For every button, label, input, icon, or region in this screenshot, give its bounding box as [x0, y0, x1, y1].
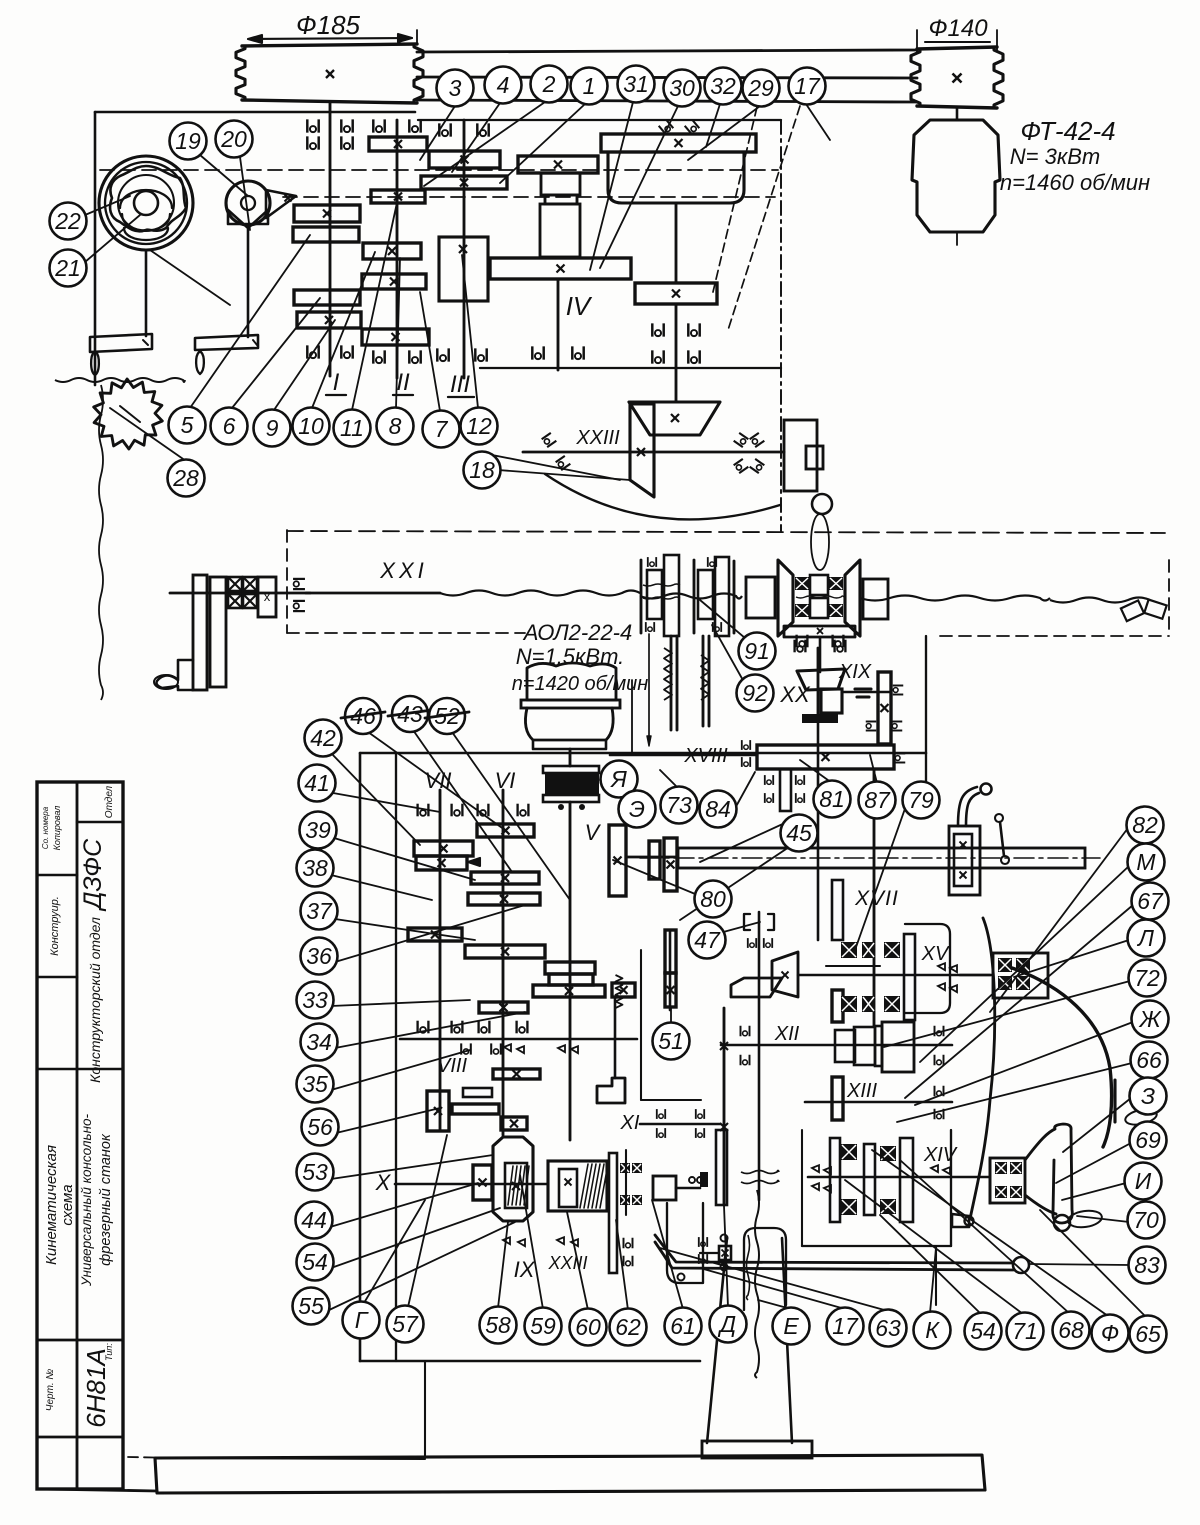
callout 70: [1128, 1202, 1165, 1239]
gears VI: [477, 824, 534, 837]
axis dashed upper: [100, 169, 778, 171]
callout 19: [170, 123, 207, 160]
svg-text:19: 19: [175, 128, 201, 154]
frame feed gearbox: [359, 753, 362, 1361]
valve assembly: [719, 1246, 731, 1260]
svg-text:57: 57: [392, 1311, 419, 1337]
leaders crossed circles: [368, 732, 505, 830]
bevel pair XXIII top: [629, 402, 720, 435]
svg-text:8: 8: [389, 413, 402, 439]
gear II b: [371, 190, 425, 203]
bearing glyph XVIII left: [742, 740, 750, 750]
svg-text:30: 30: [669, 75, 695, 101]
bearings VI: [478, 804, 489, 817]
shaft XIV: [808, 1176, 990, 1179]
callout З: [1130, 1078, 1167, 1115]
rack wavy: [55, 378, 185, 382]
svg-text:Ф: Ф: [1101, 1320, 1119, 1346]
svg-text:XII: XII: [774, 1023, 800, 1045]
frame inner right: [640, 950, 642, 1100]
gear II e: [362, 329, 429, 345]
shaft crank: [170, 592, 310, 595]
shaft XVI bar: [678, 848, 1085, 868]
svg-text:5: 5: [181, 412, 194, 438]
svg-text:82: 82: [1132, 812, 1158, 838]
machine column: [707, 1238, 727, 1443]
shaft V vertical: [569, 802, 572, 1140]
callout Я: [601, 761, 638, 798]
svg-text:29: 29: [747, 75, 774, 101]
svg-text:20: 20: [220, 126, 247, 152]
callout 61: [665, 1308, 702, 1345]
svg-text:65: 65: [1135, 1321, 1161, 1347]
lever on XVI: [958, 787, 977, 826]
shaft XIX horizontal: [843, 691, 889, 694]
svg-text:36: 36: [306, 943, 332, 969]
svg-text:70: 70: [1133, 1207, 1159, 1233]
callout 37: [301, 893, 338, 930]
bearings shaft IV: [532, 346, 543, 359]
svg-text:Отдел: Отдел: [104, 785, 115, 818]
svg-text:45: 45: [786, 820, 812, 846]
leader lines top circles: [420, 106, 455, 160]
handle block XVI right: [949, 826, 980, 895]
svg-text:6: 6: [223, 413, 236, 439]
callout 69: [1130, 1122, 1167, 1159]
spring coupling B: [693, 560, 696, 633]
svg-text:11: 11: [340, 415, 364, 441]
shaft XIII: [805, 1101, 952, 1104]
shaft XXII: [675, 203, 678, 283]
svg-text:42: 42: [310, 725, 336, 751]
shaft VII: [439, 790, 442, 1131]
callout 6: [211, 408, 248, 445]
callout 2: [531, 66, 568, 103]
wavy break XIV: [741, 1171, 779, 1174]
gear block I lower: [294, 290, 360, 305]
callout 87: [859, 782, 896, 819]
ball link: [812, 494, 832, 514]
svg-text:38: 38: [302, 855, 328, 881]
bevel left XV: [772, 952, 798, 997]
svg-text:92: 92: [742, 680, 768, 706]
callout 54: [297, 1244, 334, 1281]
callout 91: [739, 633, 776, 670]
svg-text:39: 39: [305, 817, 331, 843]
rods down with springs: [670, 636, 673, 730]
callout 34: [301, 1024, 338, 1061]
svg-text:47: 47: [694, 927, 721, 953]
leaders top area misc: [482, 453, 620, 480]
svg-text:1: 1: [583, 73, 596, 99]
XVIII lower: [780, 769, 791, 811]
callout 36: [301, 938, 338, 975]
callout 17: [789, 68, 826, 105]
svg-text:ФТ-42-4: ФТ-42-4: [1020, 116, 1115, 146]
svg-text:58: 58: [485, 1312, 511, 1338]
gear block I upper: [294, 205, 360, 222]
callout 62: [610, 1309, 647, 1346]
svg-text:Конструир.: Конструир.: [49, 896, 61, 956]
svg-text:ДЗФС: ДЗФС: [79, 838, 107, 912]
svg-text:71: 71: [1012, 1318, 1038, 1344]
svg-text:9: 9: [266, 415, 279, 441]
block III: [439, 237, 488, 301]
shaft XVIII: [610, 754, 757, 757]
svg-text:I: I: [333, 369, 340, 396]
screw XXI wavy: [306, 592, 440, 595]
block right of differential: [863, 579, 888, 619]
svg-text:Ф140: Ф140: [928, 15, 988, 42]
svg-text:Копировал: Копировал: [52, 806, 62, 851]
svg-text:28: 28: [172, 465, 199, 491]
shaft X vertical: [723, 1008, 726, 1205]
callout 12: [461, 408, 498, 445]
callout 81: [814, 781, 851, 818]
callout 72: [1129, 960, 1166, 997]
svg-text:Универсальный консольно-: Универсальный консольно-: [79, 1113, 94, 1287]
svg-text:XI: XI: [620, 1112, 640, 1134]
svg-text:XV: XV: [921, 943, 950, 965]
frame upper gearbox: [95, 111, 415, 114]
shaft V gears: [545, 962, 595, 974]
svg-text:XXIII: XXIII: [575, 427, 620, 449]
callout Е: [773, 1308, 810, 1345]
callout 43: [392, 696, 428, 732]
callout 32: [705, 68, 742, 105]
gears VII: [414, 841, 473, 856]
callout 82: [1127, 807, 1164, 844]
callout 17: [827, 1308, 864, 1345]
svg-text:N=1,5кВт.: N=1,5кВт.: [516, 644, 625, 669]
callout 39: [300, 812, 337, 849]
callout 58: [480, 1307, 517, 1344]
svg-text:22: 22: [54, 208, 81, 234]
bearings XXIII right: [734, 433, 749, 447]
svg-text:55: 55: [298, 1293, 324, 1319]
arc bottom upper unit: [545, 474, 780, 519]
svg-text:XX: XX: [779, 682, 811, 707]
svg-text:84: 84: [705, 796, 731, 822]
callout 41: [299, 765, 336, 802]
callout 80: [695, 881, 732, 918]
block on shaft XXIII: [653, 1176, 676, 1200]
dashed leader 29: [713, 107, 757, 292]
lever arm 2: [247, 226, 250, 337]
shaft VI: [502, 790, 505, 1135]
frame box XIV: [801, 1130, 803, 1246]
leaders bottom row: [364, 1200, 425, 1303]
callout 51: [653, 1023, 690, 1060]
svg-text:Я: Я: [609, 766, 627, 792]
shaft X horizontal: [395, 1183, 548, 1186]
lever rod right: [970, 918, 995, 1219]
callout 22: [50, 203, 87, 240]
nuts on screw: [1121, 600, 1144, 621]
svg-text:21: 21: [54, 255, 81, 281]
base slab: [155, 1455, 985, 1493]
spring coupling A: [640, 560, 643, 633]
coupling black: [543, 766, 599, 773]
shaft at 759: [758, 912, 761, 1200]
motor АОЛ2-22-4: [527, 663, 616, 700]
leaders right column: [990, 828, 1128, 1012]
star gear: [94, 379, 163, 449]
callout К: [914, 1312, 951, 1349]
svg-text:XIX: XIX: [838, 661, 872, 683]
gear II a: [369, 137, 427, 151]
bearing squares crank: [228, 577, 242, 591]
gear II d: [362, 274, 426, 289]
bearings XIX right: [893, 686, 904, 695]
svg-text:56: 56: [307, 1114, 333, 1140]
svg-text:Кинематическая: Кинематическая: [43, 1145, 60, 1265]
belt between pulleys: [417, 50, 917, 52]
block IV step: [541, 173, 580, 195]
svg-text:Ф185: Ф185: [296, 10, 361, 40]
svg-text:51: 51: [658, 1028, 684, 1054]
svg-text:Е: Е: [783, 1313, 799, 1339]
callout 63: [870, 1310, 907, 1347]
bearing block XIV right: [990, 1158, 1025, 1203]
callout 9: [254, 410, 291, 447]
shaft motor 2: [569, 749, 572, 766]
svg-text:IV: IV: [566, 291, 593, 321]
callout 56: [302, 1109, 339, 1146]
callout 47: [689, 922, 726, 959]
callout 60: [570, 1309, 607, 1346]
svg-text:62: 62: [615, 1314, 641, 1340]
gear XVIII bar: [757, 745, 894, 769]
pulley small 19/20: [226, 181, 270, 225]
bearings shaft II top: [373, 119, 384, 132]
bearings XIX top: [797, 635, 808, 648]
callout 54: [965, 1313, 1002, 1350]
gear XIX vertical: [878, 672, 891, 744]
svg-text:Э: Э: [629, 796, 645, 822]
svg-text:Ж: Ж: [1138, 1006, 1162, 1032]
leader lines left top: [200, 155, 248, 196]
clutch XV: [832, 880, 843, 940]
svg-text:VI: VI: [495, 768, 516, 793]
svg-text:66: 66: [1136, 1047, 1162, 1073]
svg-text:69: 69: [1135, 1127, 1161, 1153]
bearings shaft I bottom: [307, 345, 318, 358]
gear 51 shaft: [669, 930, 672, 1010]
callout 31: [618, 66, 655, 103]
leaders middle: [700, 600, 745, 638]
coupling block crank: [258, 577, 276, 617]
gear II c: [363, 243, 421, 259]
electric motor ФТ-42-4: [912, 120, 1000, 232]
svg-text:10: 10: [298, 413, 324, 439]
callout 3: [437, 70, 474, 107]
callout 52: [429, 698, 465, 734]
svg-text:41: 41: [304, 770, 330, 796]
bracket rounded: [667, 1203, 703, 1283]
svg-text:М: М: [1136, 849, 1156, 875]
svg-text:x: x: [264, 589, 271, 604]
svg-text:17: 17: [832, 1313, 859, 1339]
console outline: [744, 1228, 786, 1310]
svg-text:59: 59: [530, 1313, 556, 1339]
callout 20: [216, 121, 253, 158]
pulley Ф185: [242, 44, 417, 46]
leaders mid row: [190, 235, 310, 408]
svg-text:фрезерный станок: фрезерный станок: [98, 1133, 114, 1266]
gear XXII mid: [635, 283, 717, 304]
callout 65: [1130, 1316, 1167, 1353]
gear left IX: [473, 1165, 492, 1200]
long lever rod bottom: [655, 1235, 1013, 1263]
svg-text:18: 18: [469, 457, 495, 483]
svg-text:54: 54: [302, 1249, 328, 1275]
svg-text:Л: Л: [1136, 925, 1154, 951]
gear bar V: [609, 825, 626, 896]
svg-text:Конструкторский отдел: Конструкторский отдел: [87, 917, 103, 1083]
svg-text:35: 35: [302, 1071, 328, 1097]
shaft XII: [721, 1044, 952, 1047]
callout Г: [343, 1302, 380, 1339]
tall bar right of XXIII: [609, 1153, 617, 1273]
cam drum 21/22: [99, 156, 193, 250]
cone horn: [1025, 1124, 1072, 1223]
callout 28: [168, 460, 205, 497]
callout Д: [710, 1306, 747, 1343]
svg-text:XXI: XXI: [379, 558, 427, 583]
gear III a: [429, 151, 500, 168]
svg-text:34: 34: [306, 1029, 332, 1055]
gear IV top: [518, 156, 598, 173]
svg-text:80: 80: [700, 886, 726, 912]
callout 66: [1131, 1042, 1168, 1079]
cup spindle XXII: [608, 152, 744, 203]
block right of XXIII: [784, 420, 817, 491]
svg-text:n=1460 об/мин: n=1460 об/мин: [1000, 170, 1150, 195]
callout Э: [619, 791, 656, 828]
callout 4: [485, 67, 522, 104]
callout 83: [1129, 1247, 1166, 1284]
shaft VIII horizontal: [400, 1038, 637, 1041]
gears XVI left: [649, 841, 660, 879]
clutch IX: [493, 1137, 533, 1221]
gear IV long bar: [490, 258, 631, 279]
svg-text:АОЛ2-22-4: АОЛ2-22-4: [522, 620, 633, 645]
svg-text:V: V: [585, 820, 602, 845]
bracket box XV: [905, 924, 950, 1013]
dashed box XXI: [286, 530, 288, 633]
svg-text:З: З: [1141, 1083, 1155, 1109]
callout 53: [297, 1154, 334, 1191]
svg-text:91: 91: [744, 638, 770, 664]
title block frame: [37, 782, 123, 1489]
bearings XXII: [652, 323, 663, 336]
bearings shaft II bottom: [373, 350, 384, 363]
bearings shaft III bottom: [437, 348, 448, 361]
callout 45: [781, 815, 818, 852]
bevel XIX: [797, 669, 845, 690]
callout Ф: [1092, 1315, 1129, 1352]
plain block: [746, 577, 775, 618]
shaft I: [329, 103, 332, 376]
bearing top XXII: [659, 120, 674, 135]
crank left: [193, 575, 207, 690]
curved handle right: [1012, 968, 1112, 1147]
svg-text:7: 7: [435, 416, 449, 442]
callout 67: [1132, 883, 1169, 920]
dimension line motor 2: [648, 634, 650, 745]
callout 38: [297, 850, 334, 887]
callout 71: [1007, 1313, 1044, 1350]
callout 21: [50, 250, 87, 287]
callout Л: [1128, 920, 1165, 957]
callout М: [1128, 844, 1165, 881]
svg-text:68: 68: [1058, 1317, 1084, 1343]
svg-text:33: 33: [302, 987, 328, 1013]
callout 68: [1053, 1312, 1090, 1349]
shaft XI: [640, 1123, 720, 1126]
gear block XII: [835, 1030, 855, 1062]
svg-text:Г: Г: [355, 1307, 369, 1333]
svg-text:XXIII: XXIII: [547, 1253, 587, 1273]
svg-text:81: 81: [819, 786, 845, 812]
shaft XVII vertical: [873, 769, 876, 1026]
bearings shaft III top: [439, 123, 450, 136]
callout 18: [464, 452, 501, 489]
shaft XXIII horizontal: [523, 451, 784, 454]
dashed leader 17 top: [728, 106, 800, 330]
bearings below differential: [795, 640, 806, 653]
frame bottom: [40, 1489, 157, 1491]
callout 35: [297, 1066, 334, 1103]
svg-text:2: 2: [542, 71, 556, 97]
svg-text:II: II: [396, 369, 410, 396]
callout 55: [293, 1288, 330, 1325]
callout 10: [293, 408, 330, 445]
leaders feed left column: [333, 793, 440, 812]
callout 11: [334, 410, 371, 447]
differential unit XVI center: [778, 560, 793, 636]
svg-text:Черт. №: Черт. №: [45, 1369, 56, 1412]
svg-text:72: 72: [1134, 965, 1160, 991]
dashed line mid: [287, 531, 1165, 533]
callout 57: [387, 1306, 424, 1343]
callout 8: [377, 408, 414, 445]
shaft III: [463, 120, 466, 378]
svg-text:54: 54: [970, 1318, 996, 1344]
svg-text:И: И: [1135, 1168, 1152, 1194]
svg-text:Д: Д: [717, 1311, 736, 1337]
callout Ж: [1132, 1001, 1169, 1038]
svg-text:N= 3кВт: N= 3кВт: [1010, 144, 1100, 169]
svg-text:n=1420 об/мин: n=1420 об/мин: [512, 673, 649, 695]
svg-text:60: 60: [575, 1314, 601, 1340]
svg-text:79: 79: [908, 787, 934, 813]
svg-text:44: 44: [301, 1207, 327, 1233]
svg-text:XIII: XIII: [846, 1080, 877, 1102]
callout 1: [571, 68, 608, 105]
callout 73: [661, 787, 698, 824]
svg-text:4: 4: [497, 72, 510, 98]
pulley Ф140: [917, 47, 997, 49]
callout 7: [423, 411, 460, 448]
callout 84: [700, 791, 737, 828]
svg-text:53: 53: [302, 1159, 328, 1185]
leaders mid circles 2: [660, 770, 695, 805]
svg-text:X: X: [375, 1170, 392, 1195]
callout И: [1125, 1163, 1162, 1200]
svg-text:12: 12: [466, 413, 492, 439]
